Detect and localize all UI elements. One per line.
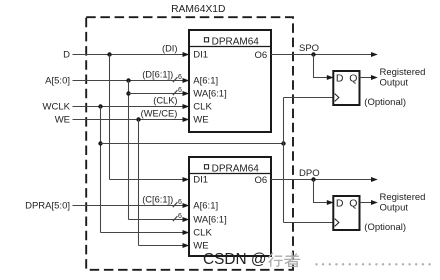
svg-text:Q: Q: [349, 198, 357, 210]
U1 pin label WA[6:1]: [193, 89, 226, 100]
net label DPO: [299, 168, 320, 179]
bus slash 6 on U2 A[6:1]: [173, 199, 182, 207]
node register clock junction: [281, 141, 285, 145]
wire A vertical branch: [128, 81, 130, 220]
wire WA branch to U2 WA[6:1]: [129, 217, 190, 222]
bus slash 6 on U1 WA[6:1]: [173, 87, 182, 95]
dpram U1 box (upper DPRAM64): [189, 30, 271, 132]
svg-text:Q: Q: [349, 73, 357, 85]
wire DPO to FF2 D: [314, 180, 334, 206]
U2 pin label WA[6:1]: [193, 215, 226, 226]
net label (D[6:1]): [142, 70, 173, 80]
node SPO junction: [311, 52, 315, 56]
U2 pin label WE: [193, 241, 208, 252]
wire D branch to U2 DI1: [110, 177, 190, 182]
label Registered Output (lower): [380, 192, 426, 213]
svg-text:WA[6:1]: WA[6:1]: [193, 89, 226, 100]
U1 header label DPRAM64: [204, 36, 259, 47]
svg-text:D: D: [336, 73, 344, 85]
wire SPO output: [271, 52, 378, 57]
input label WE: [55, 115, 70, 126]
bus slash 6 on U1 A[6:1]: [173, 74, 182, 82]
input label D: [63, 50, 70, 61]
wire WE vertical branch: [138, 120, 140, 246]
svg-text:CSDN @: CSDN @: [203, 251, 267, 268]
net label (WE/CE): [141, 109, 178, 119]
watermark CSDN @: [203, 251, 267, 268]
label (Optional) upper: [364, 97, 406, 108]
svg-text:A[6:1]: A[6:1]: [193, 76, 218, 87]
watermark glyph xing: [269, 253, 283, 266]
wire A[5:0] input to U1 A[6:1]: [73, 78, 190, 83]
wire DPO output: [271, 177, 378, 182]
svg-text:(D[6:1]): (D[6:1]): [142, 70, 173, 80]
svg-text:D: D: [63, 50, 70, 61]
U1 pin label WE: [193, 115, 208, 126]
wire WE input to U1 WE: [73, 117, 190, 122]
wire WCLK input to U1 CLK: [73, 104, 190, 109]
FF1 pin label Q: [349, 73, 357, 85]
svg-text:DI1: DI1: [193, 175, 208, 186]
U2 pin label O6: [255, 175, 268, 186]
wire FF2 Q output: [360, 200, 378, 205]
node WA branch junction: [126, 91, 130, 95]
svg-text:A[6:1]: A[6:1]: [193, 201, 218, 212]
node D branch junction: [107, 52, 111, 56]
U1 pin label A[6:1]: [193, 76, 218, 87]
wire clock into FF1: [284, 97, 333, 99]
svg-text:D: D: [336, 198, 344, 210]
input label DPRA[5:0]: [25, 201, 70, 212]
U1 pin label DI1: [193, 50, 208, 61]
net label (CLK): [153, 96, 177, 106]
svg-text:SPO: SPO: [299, 43, 319, 54]
U2 pin label CLK: [193, 228, 212, 239]
wire D vertical branch: [109, 55, 111, 180]
svg-text:A[5:0]: A[5:0]: [45, 76, 70, 87]
U2 pin label DI1: [193, 175, 208, 186]
svg-text:6: 6: [178, 74, 182, 81]
label (Optional) lower: [364, 222, 406, 233]
svg-text:RAM64X1D: RAM64X1D: [171, 4, 225, 15]
net label (DI): [162, 44, 178, 54]
FF2 pin label D: [336, 198, 344, 210]
svg-text:(Optional): (Optional): [364, 97, 406, 108]
wire WCLK vertical branch: [100, 107, 102, 233]
svg-text:6: 6: [178, 213, 182, 220]
input label A[5:0]: [45, 76, 70, 87]
svg-text:O6: O6: [255, 175, 268, 186]
svg-text:(CLK): (CLK): [153, 96, 177, 106]
dpram U2 box (lower DPRAM64): [189, 157, 271, 256]
wire FF1 Q output: [360, 75, 378, 80]
svg-text:Output: Output: [380, 203, 409, 214]
svg-text:WE: WE: [193, 241, 208, 252]
node DPO junction: [311, 177, 315, 181]
wire clock into FF2: [284, 222, 333, 224]
FF2 pin label Q: [349, 198, 357, 210]
U1 pin label CLK: [193, 102, 212, 113]
title RAM64X1D: [171, 4, 225, 15]
FF2 clock triangle: [335, 219, 339, 227]
flip-flop FF1 box: [333, 71, 359, 105]
net label SPO: [299, 43, 319, 54]
svg-text:6: 6: [178, 199, 182, 206]
svg-text:DPO: DPO: [299, 168, 320, 179]
svg-text:CLK: CLK: [193, 102, 212, 113]
wire SPO to FF1 D: [314, 55, 334, 81]
svg-text:WE: WE: [193, 115, 208, 126]
svg-text:WCLK: WCLK: [43, 102, 71, 113]
bus slash 6 on U2 WA[6:1]: [173, 213, 182, 221]
wire DPRA[5:0] input to U2 A[6:1]: [73, 203, 190, 208]
node WCLK to register clock junction: [98, 141, 102, 145]
svg-text:WA[6:1]: WA[6:1]: [193, 215, 226, 226]
svg-text:O6: O6: [255, 50, 268, 61]
svg-text:6: 6: [178, 87, 182, 94]
watermark glyph zhe: [285, 253, 300, 267]
wire WA branch to U1 WA[6:1]: [129, 91, 190, 96]
svg-text:(WE/CE): (WE/CE): [141, 109, 178, 119]
node A branch junction: [126, 78, 130, 82]
dashed boundary of RAM64X1D primitive: [86, 17, 293, 270]
U2 pin label A[6:1]: [193, 201, 218, 212]
label Registered Output (upper): [380, 67, 426, 88]
svg-text:DPRAM64: DPRAM64: [212, 36, 260, 47]
net label (C[6:1]): [142, 195, 173, 205]
wire register clock vertical: [283, 98, 285, 223]
input label WCLK: [43, 102, 71, 113]
FF1 pin label D: [336, 73, 344, 85]
wire WCLK branch to U2 CLK: [101, 230, 190, 235]
watermark dotted leader: [315, 263, 431, 265]
node WCLK branch junction: [98, 104, 102, 108]
svg-text:Output: Output: [380, 78, 409, 89]
svg-text:(Optional): (Optional): [364, 222, 406, 233]
svg-text:(C[6:1]): (C[6:1]): [142, 195, 173, 205]
wire WCLK branch to register clocks: [101, 143, 284, 145]
svg-text:WE: WE: [55, 115, 70, 126]
node WE branch junction: [136, 117, 140, 121]
svg-text:DPRAM64: DPRAM64: [212, 163, 260, 174]
U2 header label DPRAM64: [204, 163, 259, 174]
svg-text:CLK: CLK: [193, 228, 212, 239]
flip-flop FF2 box: [333, 196, 359, 230]
FF1 clock triangle: [335, 94, 339, 102]
wire WE branch to U2 WE: [139, 243, 190, 248]
svg-text:(DI): (DI): [162, 44, 178, 54]
wire D input to U1 DI1: [73, 52, 190, 57]
svg-text:DPRA[5:0]: DPRA[5:0]: [25, 201, 70, 212]
U1 pin label O6: [255, 50, 268, 61]
svg-text:DI1: DI1: [193, 50, 208, 61]
